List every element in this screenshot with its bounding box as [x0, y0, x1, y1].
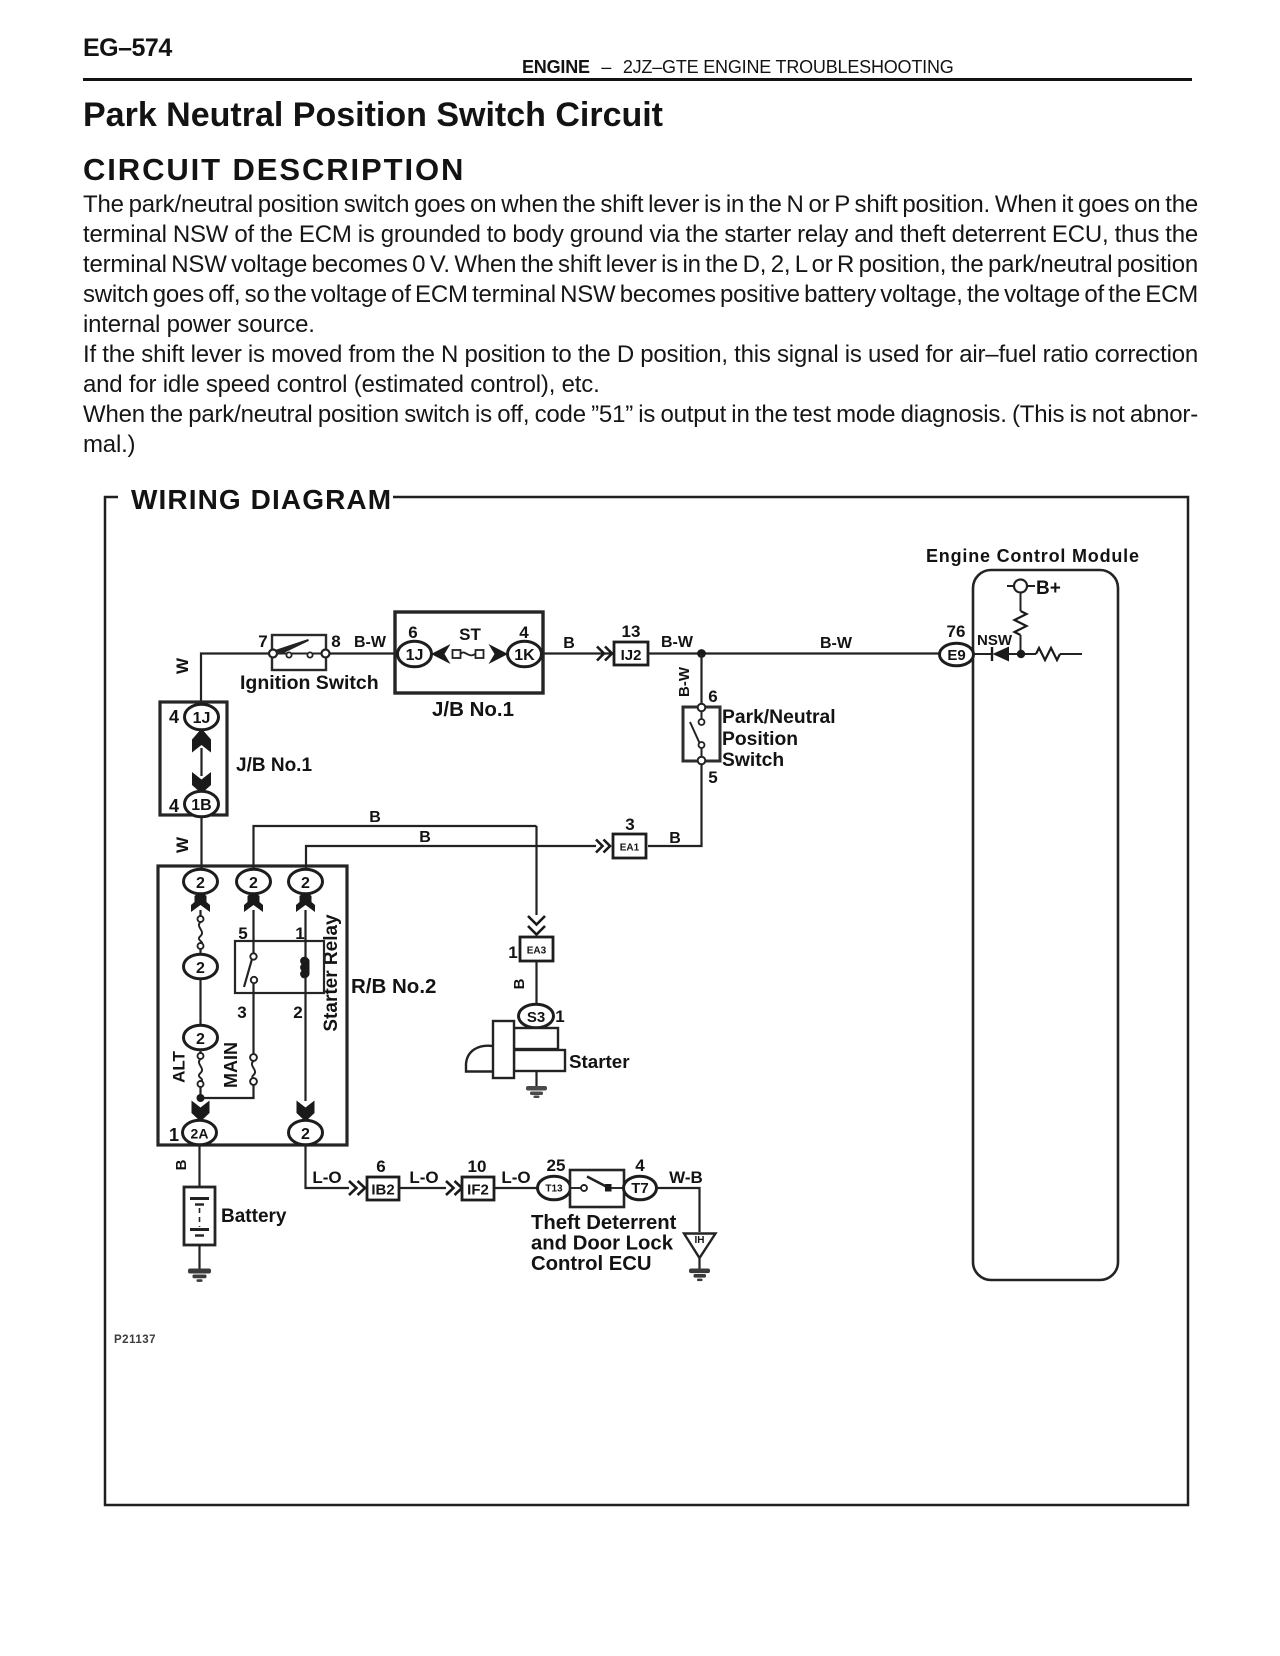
svg-text:2: 2 — [293, 1003, 302, 1022]
svg-text:B: B — [419, 829, 431, 846]
svg-text:5: 5 — [708, 768, 717, 787]
connector oval T13 — [538, 1176, 571, 1200]
svg-text:3: 3 — [625, 815, 634, 834]
wire: relay contact to MAIN fuse — [252, 983, 254, 1054]
node: junction dot at P/N branch — [697, 649, 706, 658]
ground (starter) — [526, 1086, 547, 1098]
svg-text:Switch: Switch — [722, 750, 784, 771]
junction connector IJ2 — [614, 642, 648, 665]
wire ALT column — [199, 978, 201, 1026]
svg-text:ST: ST — [459, 625, 481, 644]
svg-text:7: 7 — [258, 632, 267, 651]
black arrow down (col 2) — [244, 893, 263, 912]
black arrow right (into 1K) — [489, 644, 509, 664]
relay coil/contact inner box — [235, 941, 324, 993]
J/B No.1 left block box — [160, 702, 227, 815]
black arrow down (col 3) — [296, 893, 315, 912]
svg-text:Ignition Switch: Ignition Switch — [240, 672, 379, 694]
connector oval 1B — [185, 791, 219, 817]
wire: IB2 to IF2 — [399, 1187, 446, 1189]
IH ground triangle — [684, 1234, 716, 1259]
svg-text:P21137: P21137 — [114, 1334, 156, 1346]
header rule — [83, 78, 1192, 81]
svg-text:J/B No.1: J/B No.1 — [236, 755, 312, 776]
park/neutral position switch S1 — [683, 707, 720, 761]
svg-text:IJ2: IJ2 — [621, 647, 642, 664]
svg-text:1J: 1J — [193, 710, 211, 727]
connector oval 2 (col 2) — [237, 869, 271, 894]
svg-text:WIRING DIAGRAM: WIRING DIAGRAM — [131, 484, 392, 515]
svg-text:1B: 1B — [191, 797, 211, 814]
wire: oval 2 down, right to IB2 — [306, 1144, 350, 1188]
junction connector EA1 — [613, 834, 646, 858]
svg-text:MAIN: MAIN — [221, 1042, 241, 1088]
svg-text:E9: E9 — [947, 647, 965, 664]
fusible link ALT (lower) — [198, 1049, 204, 1098]
wire: W from ignition switch to J/B No.1 left block — [201, 654, 269, 705]
svg-text:B-W: B-W — [676, 666, 693, 697]
wire: B from relay oval 2 up and right to EA3 drop — [254, 826, 537, 870]
wire: P/N switch pin5 down and left to EA1 — [648, 764, 702, 846]
svg-text:2: 2 — [249, 875, 258, 892]
ignition switch IG2 box — [272, 635, 326, 670]
svg-text:B-W: B-W — [354, 634, 387, 651]
wire: starter to ground — [535, 1071, 537, 1087]
wire: IF2 to T13 — [494, 1187, 538, 1189]
svg-text:B-W: B-W — [661, 634, 694, 651]
node: NSW junction dot — [1017, 650, 1025, 658]
wire: B+ down to resistor — [1020, 593, 1022, 612]
svg-text:L-O: L-O — [409, 1168, 438, 1187]
svg-text:R/B No.2: R/B No.2 — [351, 975, 436, 998]
wire: col3 to relay coil — [304, 910, 306, 958]
svg-text:B: B — [563, 635, 575, 652]
svg-text:2: 2 — [196, 875, 205, 892]
svg-text:8: 8 — [331, 632, 340, 651]
page number EG-574 — [83, 34, 172, 63]
junction chevrons into EA1 — [596, 840, 610, 853]
svg-text:10: 10 — [468, 1157, 487, 1176]
wire between arrows — [200, 748, 202, 776]
black arrow down — [192, 772, 211, 794]
wire: IJ2 to ECM terminal E9 — [648, 652, 941, 654]
wire: col2 into relay — [252, 910, 254, 953]
wire: 1K to IJ2 — [543, 652, 614, 654]
connector oval 2 (ALT lower) — [184, 1025, 218, 1050]
svg-text:5: 5 — [238, 924, 247, 943]
svg-text:Theft Deterrent: Theft Deterrent — [531, 1212, 677, 1234]
junction chevrons into IF2 — [446, 1181, 462, 1195]
wire: B from relay oval 2 up and right to EA1 — [306, 846, 596, 870]
junction connector EA3 — [520, 937, 553, 961]
fuse MAIN — [250, 1054, 257, 1085]
black arrow up — [192, 729, 211, 753]
svg-text:B: B — [369, 809, 381, 826]
svg-text:1: 1 — [295, 924, 304, 943]
svg-text:Engine Control Module: Engine Control Module — [926, 546, 1140, 566]
svg-text:J/B No.1: J/B No.1 — [432, 698, 514, 721]
wire: diode to node — [1009, 653, 1036, 655]
svg-text:25: 25 — [547, 1156, 566, 1175]
ground (IH) — [689, 1269, 710, 1282]
diode D1 (cathode bar left, triangle pointing left) — [992, 647, 1009, 662]
black arrow left (into 1J) — [431, 644, 451, 664]
svg-text:Battery: Battery — [221, 1206, 287, 1227]
title — [83, 96, 663, 135]
node: junction ALT/MAIN — [197, 1094, 205, 1102]
wire: MAIN fuse to junction — [204, 1085, 254, 1098]
connector oval 2 (col 3) — [289, 869, 323, 894]
svg-text:4: 4 — [519, 623, 529, 642]
svg-text:EA1: EA1 — [620, 843, 640, 854]
ignition switch contacts and lever — [269, 640, 330, 658]
B+ terminal circle — [1007, 580, 1035, 593]
svg-text:Park/Neutral: Park/Neutral — [722, 707, 836, 728]
wire: E9 into ECM — [973, 653, 992, 655]
black arrow down (col 1) — [191, 893, 210, 912]
svg-text:B-W: B-W — [820, 635, 853, 652]
wire: drop to EA3 — [535, 826, 537, 915]
svg-text:Control ECU: Control ECU — [531, 1253, 652, 1275]
ground (battery) — [188, 1269, 211, 1282]
svg-text:Starter: Starter — [569, 1051, 630, 1072]
relay coil L1 — [300, 957, 309, 979]
ECM box U1 — [973, 570, 1118, 1280]
svg-text:T7: T7 — [631, 1180, 649, 1197]
J/B No.1 fuse box (top) — [395, 612, 543, 693]
black arrow down (col 3 bottom) — [297, 1101, 315, 1122]
svg-text:B: B — [669, 830, 681, 847]
section heading — [83, 152, 465, 188]
svg-text:1: 1 — [169, 1125, 179, 1145]
body paragraphs — [83, 190, 1198, 460]
svg-text:L-O: L-O — [312, 1168, 341, 1187]
junction chevrons into IB2 — [349, 1181, 365, 1195]
svg-text:6: 6 — [708, 687, 717, 706]
fuse ST symbol — [453, 650, 484, 658]
svg-text:B: B — [173, 1159, 190, 1170]
svg-text:and Door Lock: and Door Lock — [531, 1233, 674, 1255]
junction chevrons into EA3 (down) — [528, 916, 545, 935]
svg-text:4: 4 — [169, 796, 179, 816]
wire: 2A to battery — [198, 1144, 200, 1188]
wiring diagram frame — [105, 497, 1188, 1505]
svg-text:4: 4 — [169, 707, 179, 727]
running header — [522, 57, 954, 78]
svg-text:ALT: ALT — [170, 1050, 189, 1082]
wire: resistor to NSW node — [1020, 635, 1022, 654]
wire: resistor into ECM internals — [1060, 653, 1082, 655]
svg-text:W: W — [173, 657, 192, 674]
wire: battery to ground — [198, 1245, 200, 1270]
svg-text:2A: 2A — [191, 1126, 209, 1142]
svg-text:13: 13 — [622, 622, 641, 641]
junction chevrons into IJ2 — [597, 647, 612, 661]
svg-text:S3: S3 — [527, 1009, 545, 1026]
svg-text:Position: Position — [722, 729, 798, 750]
svg-text:IH: IH — [695, 1235, 705, 1246]
resistor R (series, horizontal zigzag) — [1036, 648, 1060, 660]
svg-text:3: 3 — [237, 1003, 246, 1022]
connector oval 1J (left block) — [185, 704, 219, 730]
R/B No.2 relay block box — [158, 866, 347, 1145]
wire: 1B down to R/B No.2 — [200, 816, 202, 872]
junction connector IB2 — [367, 1177, 399, 1200]
connector oval 2 (col 1) — [184, 869, 218, 894]
svg-text:2: 2 — [196, 960, 205, 977]
svg-text:IF2: IF2 — [467, 1182, 489, 1199]
svg-text:1J: 1J — [406, 647, 424, 664]
svg-text:L-O: L-O — [501, 1168, 530, 1187]
svg-text:6: 6 — [408, 623, 417, 642]
starter motor M — [466, 1021, 565, 1078]
wire: pin8 to J/B No.1 — [329, 652, 398, 654]
connector oval 1J — [398, 641, 432, 667]
wire: coil to arrow — [304, 977, 306, 1101]
connector oval E9 — [940, 643, 974, 666]
svg-text:W-B: W-B — [669, 1168, 703, 1187]
wire: T7 right then down — [656, 1188, 700, 1232]
connector oval S3 — [519, 1004, 554, 1028]
connector oval 1K — [508, 641, 542, 667]
svg-text:2: 2 — [301, 1126, 310, 1143]
svg-text:W: W — [173, 836, 192, 853]
theft deterrent ECU switch box — [570, 1170, 624, 1207]
connector oval 2 (bottom) — [289, 1120, 323, 1145]
svg-text:B+: B+ — [1036, 578, 1061, 599]
svg-text:6: 6 — [376, 1157, 385, 1176]
connector oval T7 — [624, 1176, 657, 1200]
wire: triangle to ground — [698, 1258, 700, 1270]
svg-text:B: B — [511, 978, 528, 989]
svg-text:IB2: IB2 — [371, 1182, 394, 1199]
svg-text:1: 1 — [555, 1007, 564, 1026]
svg-text:1: 1 — [508, 943, 517, 962]
svg-text:4: 4 — [635, 1156, 645, 1175]
svg-text:1K: 1K — [514, 647, 535, 664]
svg-text:2: 2 — [196, 1031, 205, 1048]
svg-text:EA3: EA3 — [527, 946, 547, 957]
connector oval 2A — [183, 1120, 217, 1145]
ECU internal switch — [570, 1177, 624, 1192]
black arrow down (to 2A) — [192, 1101, 210, 1122]
resistor R (pull-up, vertical zigzag) — [1015, 611, 1027, 635]
relay contact — [244, 953, 257, 987]
svg-text:NSW: NSW — [977, 632, 1013, 649]
connector oval 2 (ALT mid) — [184, 954, 218, 979]
svg-text:76: 76 — [947, 622, 966, 641]
fusible link ALT (upper) — [198, 910, 204, 955]
junction connector IF2 — [462, 1177, 494, 1200]
battery BAT — [184, 1187, 215, 1245]
svg-text:T13: T13 — [545, 1184, 563, 1195]
wire: EA3 to S3 — [535, 961, 537, 1005]
wire: B-W drop to park/neutral switch — [700, 654, 702, 708]
svg-text:2: 2 — [301, 875, 310, 892]
